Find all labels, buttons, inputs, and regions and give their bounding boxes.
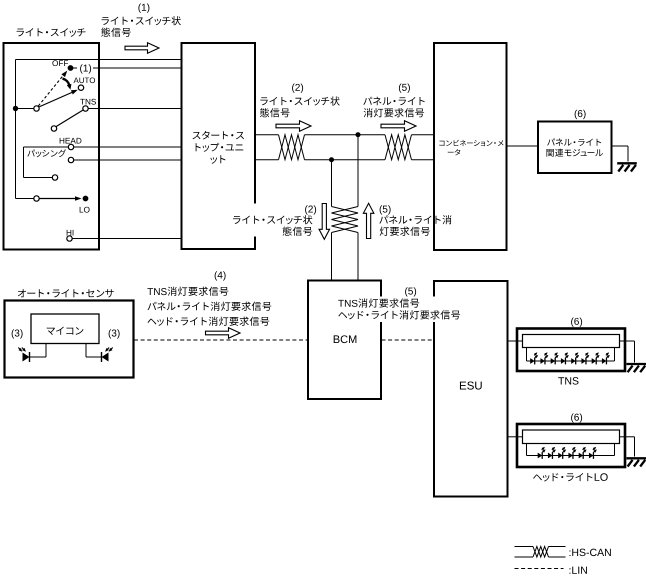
wire panel module to ground h — [612, 145, 629, 147]
TNS lamp unit box — [517, 329, 625, 372]
label (3) left — [12, 329, 23, 338]
wire panel module to ground v — [627, 146, 629, 162]
label (6) panel module — [575, 110, 586, 119]
switch arm TNS pole diagonal — [56, 110, 84, 127]
wire HL LED riser right — [614, 444, 616, 456]
label start-stop unit line3 — [210, 155, 225, 163]
label TNS unit — [558, 377, 578, 384]
panel light module box — [538, 122, 612, 174]
wire CAN branch left vertical lower — [331, 233, 333, 281]
wire headlight unit to ground v — [634, 437, 636, 457]
wire CAN low segment a — [255, 159, 278, 161]
TNS lamp inner module — [523, 335, 620, 348]
contact TNS — [83, 106, 88, 111]
start-stop unit box — [182, 43, 256, 249]
label BCM — [334, 335, 357, 343]
microcomputer box — [31, 314, 99, 344]
contact passing pole lower — [52, 175, 57, 180]
label switch status line2 lower — [282, 227, 312, 236]
signal arrow (4) right — [206, 328, 241, 339]
signal arrow (5) up — [363, 203, 374, 238]
headlight LO inner module — [523, 430, 620, 444]
wire CAN branch left vertical — [331, 160, 333, 207]
label headlight off request at BCM — [336, 309, 464, 322]
wire LIN BCM to ESU — [382, 339, 435, 341]
wire TNS LED riser right — [614, 348, 616, 362]
label light switch status signal line2 — [101, 28, 131, 37]
wire meter to panel module — [507, 145, 539, 147]
label microcomputer — [47, 327, 84, 335]
wire TNS unit to ground h — [620, 340, 635, 342]
label switch status line1 upper — [260, 96, 339, 105]
wire ESU to TNS unit — [507, 340, 523, 342]
label headlight off request signal — [148, 317, 270, 326]
wire CAN branch right vertical — [357, 135, 359, 207]
label ESU — [460, 381, 482, 389]
photodiode left — [23, 353, 30, 362]
label (6) TNS — [571, 318, 582, 327]
ground TNS unit — [627, 364, 646, 372]
wire passing bracket vertical — [23, 147, 25, 178]
switch arm LO with arrow — [39, 198, 78, 200]
label HEAD — [60, 138, 82, 144]
contact HI — [67, 236, 72, 241]
LED chain TNS (8 LEDs) — [530, 352, 610, 364]
twisted pair coil 2 — [385, 135, 412, 160]
wire micon left down — [45, 344, 47, 358]
ground headlight unit — [627, 458, 646, 466]
rotation curved arrow — [63, 79, 70, 86]
wire CAN low segment b — [305, 159, 386, 161]
label auto light sensor — [18, 289, 114, 297]
wire TNS contact to unit — [86, 108, 182, 110]
label TNS off request at BCM — [336, 297, 464, 310]
combination meter box — [434, 43, 507, 250]
ground panel module — [617, 163, 637, 171]
signal arrow (1) right — [125, 43, 159, 54]
wire CAN low segment c — [412, 159, 435, 161]
label TNS switch — [80, 99, 96, 105]
label (2) upper — [292, 84, 303, 93]
contact passing — [68, 157, 73, 162]
wire left rail — [15, 60, 17, 199]
label OFF — [52, 60, 68, 66]
contact rotary pivot — [34, 106, 39, 111]
wire passing contact to unit — [71, 159, 182, 161]
label (1) at OFF contact — [77, 63, 93, 74]
legend HS-CAN line low a — [515, 556, 534, 558]
contact LO pole left — [34, 196, 39, 201]
label panel module line1 — [547, 138, 601, 145]
wire ESU to headlight unit — [507, 436, 523, 438]
auto light sensor box — [5, 301, 134, 378]
label (1) top — [138, 4, 149, 13]
label AUTO — [74, 77, 96, 83]
contact LO dot — [83, 196, 89, 202]
label start-stop unit line1 — [193, 131, 244, 140]
label light switch status signal line1 — [102, 16, 181, 25]
label LO — [80, 207, 90, 213]
label legend LIN — [569, 567, 586, 574]
label light switch — [17, 28, 86, 37]
light switch box — [4, 43, 100, 250]
switch arm rotary to AUTO with arrow — [39, 92, 74, 108]
wire HL LED chain — [527, 455, 615, 457]
label combination meter line1 — [439, 140, 503, 147]
twisted pair coil vertical — [332, 207, 359, 233]
wire OFF contact to unit — [71, 67, 182, 69]
wire LIN sensor to BCM — [134, 339, 308, 341]
wire HI contact to unit — [70, 238, 182, 240]
wire TNS LED riser left — [526, 348, 528, 362]
legend HS-CAN line high a — [515, 546, 534, 548]
label panel light line1 upper — [363, 97, 424, 106]
legend twisted pair coil — [533, 547, 549, 558]
label start-stop unit line2 — [196, 143, 244, 152]
contact HEAD — [68, 144, 73, 149]
signal arrow (5) right — [381, 121, 416, 132]
label panel light off request signal — [148, 302, 272, 311]
wire TNS LED chain — [527, 360, 615, 362]
label legend HS-CAN — [569, 549, 610, 556]
wire CAN branch right vertical lower — [357, 233, 359, 281]
signal arrow (2) down — [319, 204, 330, 240]
junction node CAN low — [329, 157, 334, 162]
junction node CAN high — [356, 132, 361, 137]
contact TNS pole lower — [51, 126, 56, 131]
label HI — [67, 230, 74, 236]
contact OFF dot — [68, 65, 74, 71]
wire LO pole line — [16, 198, 37, 200]
photodiode right — [102, 353, 109, 362]
wire CAN high segment a — [255, 134, 278, 136]
label headlight LO unit — [533, 473, 608, 482]
wire passing bracket horizontal — [24, 177, 53, 179]
label panel light off line1 lower — [379, 215, 451, 224]
legend HS-CAN line low b — [549, 556, 566, 558]
wire micon left to diode — [30, 356, 47, 358]
wire HL LED riser left — [526, 444, 528, 456]
legend HS-CAN line high b — [549, 546, 566, 548]
label (5) BCM — [405, 287, 416, 296]
label (6) headlight — [571, 413, 582, 422]
label switch status line2 upper — [260, 108, 290, 117]
wire headlight unit to ground h — [620, 436, 635, 438]
label switch status line1 lower — [227, 204, 316, 237]
label panel light line2 upper — [364, 108, 425, 117]
label (2) lower — [305, 205, 316, 214]
ESU box — [434, 281, 508, 497]
wire CAN high segment b — [305, 134, 386, 136]
label panel light off line2 lower — [380, 227, 430, 236]
BCM box — [308, 281, 381, 400]
label combination meter line2 — [448, 149, 461, 155]
switch arm dashed to OFF with arrow — [38, 75, 64, 107]
label (5) upper — [399, 84, 410, 93]
label (3) right — [109, 329, 120, 338]
wire HEAD line — [24, 146, 182, 148]
label passing — [27, 149, 66, 157]
headlight LO lamp unit box — [517, 424, 625, 467]
label TNS off request signal — [147, 287, 228, 296]
junction rail-pivot dot — [13, 106, 18, 111]
wire micon right down — [85, 344, 87, 358]
wire micon right to diode — [86, 356, 102, 358]
wire rail top to unit — [16, 59, 182, 61]
legend LIN dashed line — [515, 568, 564, 570]
twisted pair coil 1 — [279, 135, 305, 160]
label (4) — [215, 271, 226, 280]
label (5) lower — [380, 205, 391, 214]
wire TNS unit to ground v — [634, 341, 636, 363]
label panel module line2 — [546, 149, 603, 157]
wire rail to rotary pivot — [16, 108, 35, 110]
LED chain headlight LO (6 LEDs) — [538, 447, 597, 459]
signal arrow (2) right — [276, 121, 311, 132]
contact AUTO — [78, 85, 83, 90]
wire CAN high segment c — [412, 134, 435, 136]
